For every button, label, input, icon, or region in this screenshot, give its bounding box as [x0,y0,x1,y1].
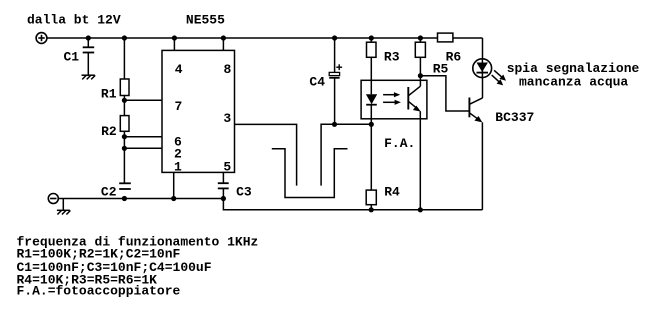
svg-text:F.A.=fotoaccoppiatore: F.A.=fotoaccoppiatore [17,283,181,298]
wire C4 branch [334,38,336,72]
svg-text:NE555: NE555 [186,13,225,28]
wire electrode B [321,124,334,185]
svg-text:dalla bt 12V: dalla bt 12V [27,12,121,27]
node R1-R2 pin7 [122,98,127,103]
svg-text:R1: R1 [101,87,117,102]
resistor R5 [415,42,425,57]
wire C3 bottom [222,188,224,198]
opto coupling arrows [383,92,401,105]
node C2 ground [122,196,127,201]
wire pin5 to C3 [222,172,224,183]
svg-text:1: 1 [174,159,182,174]
node R3 top [369,35,374,40]
resistor R1 [120,79,129,96]
wire opto emitter to ground rail [419,111,421,210]
optocoupler F.A. box [361,80,427,119]
node electrode B / C4 [332,122,337,127]
node pin8 [221,35,226,40]
svg-text:BC337: BC337 [495,110,534,125]
node R1 top [122,35,127,40]
wire pin7 [124,99,162,101]
svg-text:7: 7 [175,99,183,114]
ground below C1 [82,75,96,79]
node opto emitter ground [418,207,423,212]
wire C1 branch [87,38,89,47]
capacitor C3 [218,183,229,188]
capacitor C1 [83,47,95,52]
svg-text:F.A.: F.A. [384,136,415,151]
svg-text:R4: R4 [384,185,400,200]
wire pin1 [173,172,175,198]
wire R5 to phototransistor collector [419,38,421,86]
wire R5 node to BC337 base [420,76,469,111]
svg-text:C4: C4 [309,75,325,90]
op-amp U1 NE555 IC body [162,50,235,172]
node C1 top [86,35,91,40]
svg-text:8: 8 [224,62,232,77]
node R5 top [418,35,423,40]
capacitor C4 electrolytic [329,64,342,78]
svg-text:mancanza acqua: mancanza acqua [519,75,628,90]
wire water vessel outline [272,149,348,198]
node pin6 [122,134,127,139]
svg-text:C1: C1 [64,50,80,65]
wire rail corner down to LED [482,38,484,98]
minus supply terminal [48,194,58,204]
wire bottom-left ground rail [58,198,223,200]
transistor Q1 BC337 [469,98,482,121]
node LED cathode / R4 [369,122,374,127]
node pin1 ground [171,196,176,201]
svg-text:4: 4 [175,62,183,77]
svg-text:R6: R6 [446,50,462,65]
wire R1 R2 divider chain [123,38,125,183]
wire pin3 output to electrode A [235,124,297,185]
node R4 ground [369,207,374,212]
wire R3 to opto LED anode [370,38,372,94]
svg-text:3: 3 [223,111,231,126]
wire top supply rail [47,37,483,39]
wire BC337 emitter to ground rail [481,122,483,210]
node pin2 [122,146,127,151]
svg-text:C2: C2 [101,185,117,200]
wire pin8 [222,38,224,50]
node R5 / collector / base [418,73,423,78]
LED spia (indicator lamp) [473,59,492,78]
wire pin4 [173,38,175,50]
node C4 top [332,35,337,40]
wire ground rail step down [223,199,482,210]
node pin4 [172,35,177,40]
opto phototransistor [408,86,420,110]
resistor R6 [438,33,453,42]
LED light emission arrows [492,70,506,85]
opto emitter arrowhead [413,106,421,112]
ground at minus terminal [57,210,71,214]
opto internal LED [366,94,377,104]
svg-text:R2: R2 [101,124,117,139]
resistor R4 [366,190,376,205]
svg-text:R3: R3 [384,50,400,65]
wire node B to LED cathode node [335,123,372,125]
resistor R3 [367,42,377,57]
wire opto LED cathode through R4 to ground rail [370,105,372,210]
node C3 ground [221,196,226,201]
wire pin6 [124,136,162,138]
plus supply terminal [36,33,47,44]
wire ground stub at minus terminal [62,199,64,211]
BC337 emitter arrowhead [474,116,482,122]
capacitor C2 [119,183,131,189]
svg-text:5: 5 [223,159,231,174]
resistor R2 [120,116,129,132]
wire pin2 [124,147,162,149]
svg-text:C3: C3 [236,185,252,200]
